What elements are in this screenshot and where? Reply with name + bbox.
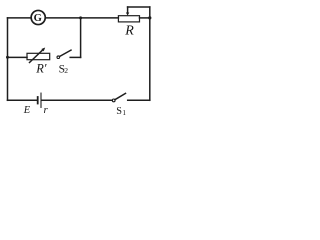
svg-text:G: G [34,13,42,24]
switch S2 blade [60,50,72,56]
svg-text:R: R [124,24,134,39]
svg-text:2: 2 [64,66,68,75]
wire right vertical [149,7,151,100]
battery E positive plate (long) [40,93,42,107]
svg-text:E: E [23,105,31,116]
switch S2 pivot [57,56,60,59]
svg-text:R′: R′ [35,62,47,76]
wire R right lead [140,17,150,19]
resistor R' arrow [30,49,44,62]
node junction left [6,56,9,59]
switch S1 blade [115,93,126,99]
rheostat R wiper arrow [127,7,129,13]
resistor R body [118,16,139,22]
wire S2 fixed contact stub [70,56,80,58]
node junction top [79,16,82,19]
wire bottom-left segment [8,99,37,101]
wire top-left segment [8,17,32,19]
svg-text:1: 1 [122,109,126,117]
wire left vertical [7,18,9,100]
switch S1 pivot [112,99,115,102]
wire G to R [46,17,119,19]
galvanometer G [31,10,45,24]
svg-text:S: S [116,106,122,117]
wire middle-left segment [8,56,28,58]
node junction right [148,16,151,19]
wire wiper loop top [128,6,150,8]
battery E negative plate (short) [37,97,39,104]
resistor R' body [27,53,50,59]
wire bottom-right segment [128,99,150,101]
wire battery to S1 [42,99,113,101]
wire branch vertical [80,18,82,58]
